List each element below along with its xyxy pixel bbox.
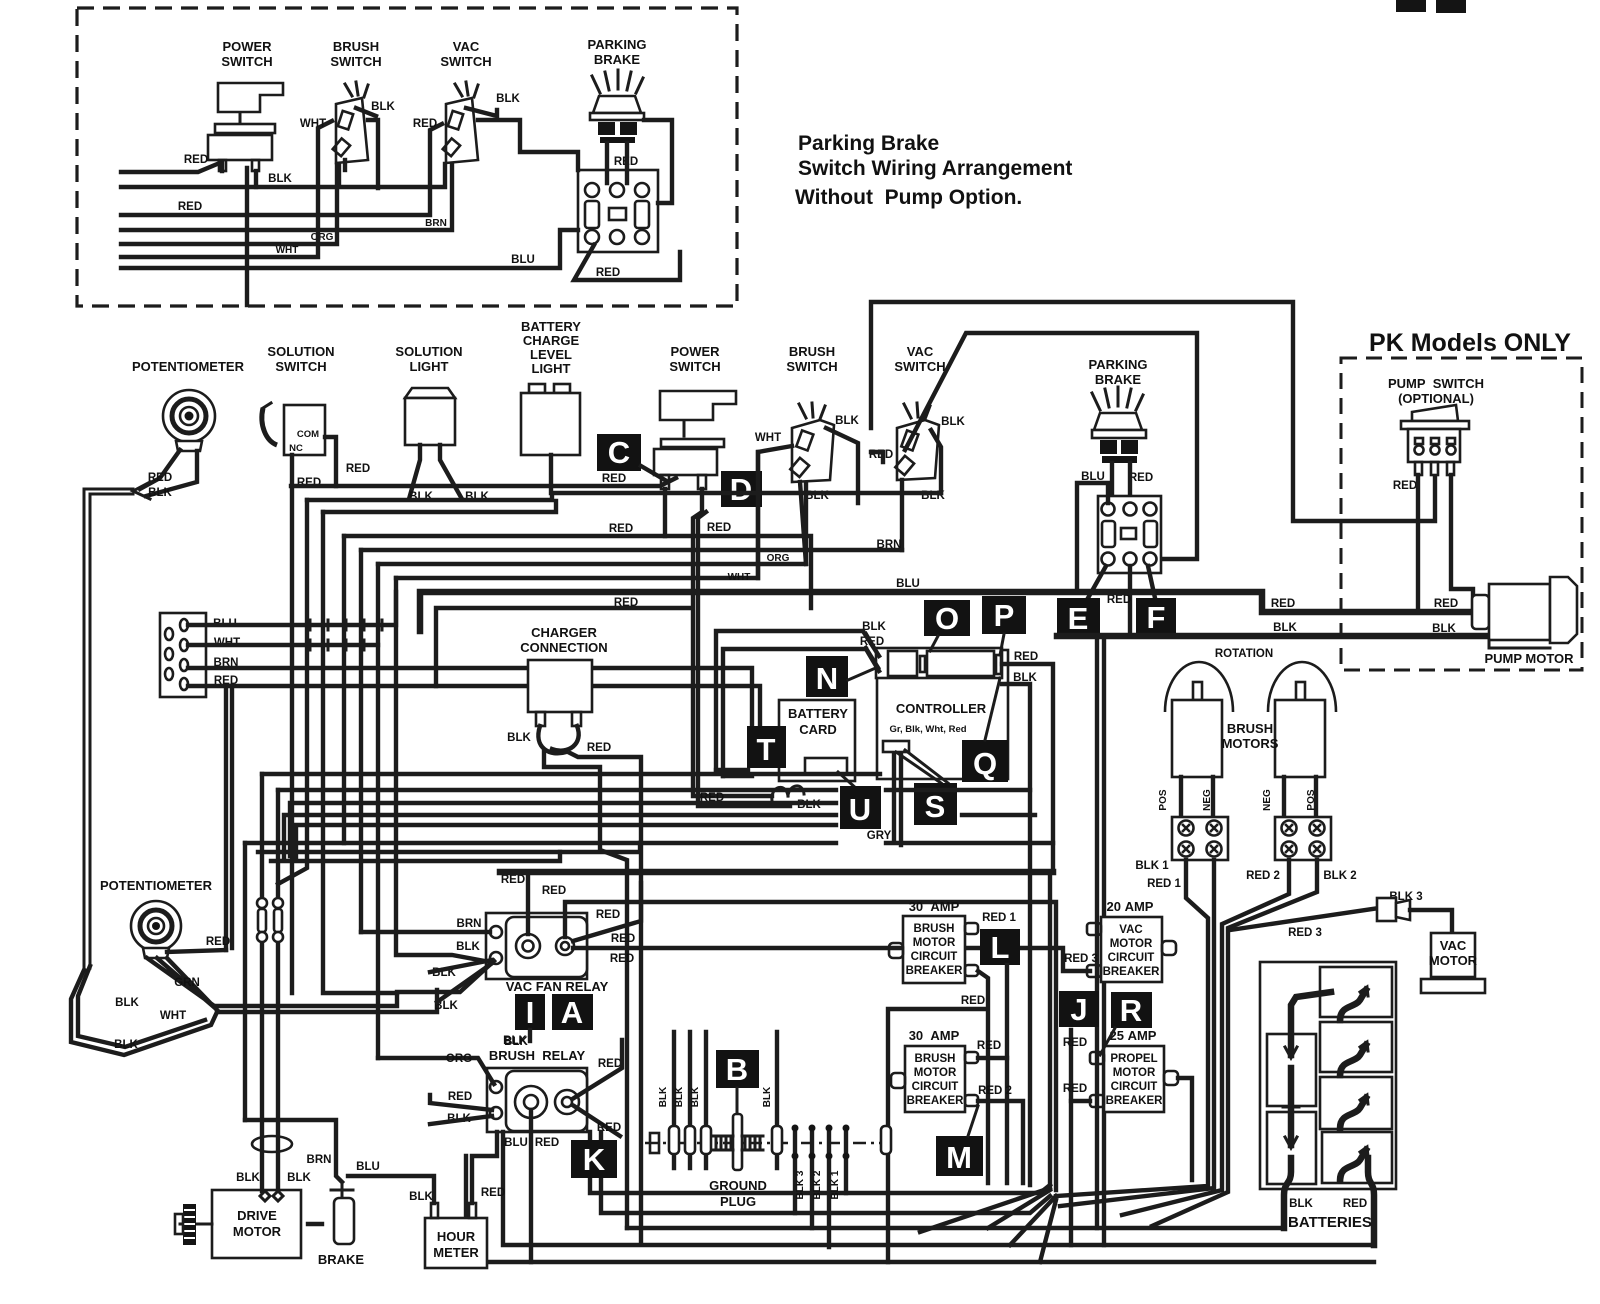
svg-text:BLK: BLK bbox=[114, 1039, 138, 1051]
svg-text:MOTOR: MOTOR bbox=[1113, 1067, 1156, 1079]
vac fan relay K1 coil terminal 1 bbox=[490, 926, 502, 938]
svg-text:BLK 2: BLK 2 bbox=[812, 1170, 823, 1199]
batteries outer box bbox=[1260, 962, 1396, 1189]
wire pot R1 leads to arrow bbox=[140, 450, 197, 496]
parking brake lamp PL1 contact blocks bbox=[598, 122, 615, 135]
svg-text:VAC: VAC bbox=[1119, 924, 1142, 936]
vac switch S3 body bbox=[446, 98, 478, 163]
wire staircase v323 down bbox=[323, 512, 397, 993]
svg-text:LEVEL: LEVEL bbox=[530, 347, 572, 362]
wire K2 bottom drops bbox=[590, 1132, 846, 1213]
battery card inner connector bbox=[805, 758, 847, 774]
battery jumper s4 bbox=[1340, 1150, 1366, 1180]
potentiometer R2 base bbox=[143, 948, 169, 958]
svg-text:SWITCH: SWITCH bbox=[221, 54, 272, 69]
wire BLU brake to hour meter bbox=[348, 1176, 434, 1203]
brush relay K2 terminal 1 bbox=[490, 1081, 502, 1093]
brush motor M2 body bbox=[1172, 700, 1222, 777]
marker A bbox=[552, 994, 593, 1030]
controller connector strip cell 1 bbox=[888, 651, 917, 676]
marker U bbox=[840, 786, 881, 829]
ground plug GP1 right hatch bbox=[742, 1136, 763, 1150]
svg-text:BLK 3: BLK 3 bbox=[795, 1170, 806, 1199]
wire battery card to U leader bbox=[838, 772, 858, 790]
svg-text:R: R bbox=[1120, 993, 1142, 1028]
wire staircase v396 down WHT bbox=[396, 578, 490, 962]
svg-text:O: O bbox=[935, 601, 959, 636]
wire WHT line y578 bbox=[396, 452, 758, 578]
svg-text:VAC: VAC bbox=[907, 344, 934, 359]
wire L7 BLU bbox=[121, 230, 578, 268]
vac fan relay K1 inner bbox=[506, 917, 587, 977]
svg-text:BLK: BLK bbox=[941, 416, 965, 428]
svg-text:PROPEL: PROPEL bbox=[1110, 1053, 1157, 1065]
svg-text:PUMP SWITCH: PUMP SWITCH bbox=[1388, 376, 1484, 391]
wire TB2 drop 2 bbox=[1152, 860, 1317, 1226]
contactor CR1 coil left bbox=[585, 201, 599, 228]
wire brush motor M2 leads bbox=[1181, 777, 1213, 817]
wire L area down bbox=[1005, 965, 1009, 1183]
svg-text:VAC FAN RELAY: VAC FAN RELAY bbox=[506, 979, 609, 994]
svg-text:RED 1: RED 1 bbox=[982, 912, 1016, 924]
wire charger loop RED bbox=[552, 726, 579, 751]
svg-text:D: D bbox=[730, 472, 752, 507]
wire BLK diag to K2 t2 bbox=[430, 1116, 492, 1124]
svg-text:BLK: BLK bbox=[456, 941, 480, 953]
svg-text:ORG: ORG bbox=[767, 553, 790, 564]
SECTION: title bbox=[795, 132, 1072, 209]
wire brush sw bottom to BLK line bbox=[343, 160, 347, 170]
wire BLK diagonals to relay K1 t2 bbox=[430, 960, 492, 1002]
battery charge light DS2 caps bbox=[529, 384, 545, 393]
wire RED bus heavy y872 bbox=[500, 869, 1053, 876]
controller connector strip outer bbox=[876, 648, 1002, 678]
wire L5 ORG bbox=[121, 165, 337, 244]
vac switch S7 rays bbox=[904, 403, 930, 419]
brush switch S6 body bbox=[792, 420, 834, 482]
marker P bbox=[982, 596, 1026, 634]
wire fan diag 3 bbox=[920, 1188, 1050, 1232]
svg-text:RED: RED bbox=[609, 523, 633, 535]
contactor CR2 bottom terminals bbox=[1102, 553, 1115, 566]
svg-text:BRUSH: BRUSH bbox=[914, 923, 955, 935]
svg-text:BREAKER: BREAKER bbox=[1106, 1095, 1164, 1107]
battery jumper s1 bbox=[1340, 990, 1366, 1020]
wire ORG long to brush relay bbox=[378, 1058, 494, 1084]
wire staircase v307 down bbox=[278, 500, 307, 884]
solution light DS1 terminals bbox=[409, 445, 462, 499]
contactor CR1 middle contact bbox=[609, 208, 626, 220]
vac fan relay K1 coil terminal 2 bbox=[490, 952, 502, 964]
svg-text:BLK 1: BLK 1 bbox=[830, 1170, 841, 1199]
contactor CR1 box bbox=[578, 170, 658, 252]
battery B6 bbox=[1322, 1132, 1392, 1183]
svg-text:NC: NC bbox=[289, 443, 303, 454]
stub connector 3 bbox=[827, 1130, 831, 1247]
wire ring1 down long right bbox=[531, 1110, 1374, 1262]
svg-text:SWITCH: SWITCH bbox=[786, 359, 837, 374]
svg-text:POS: POS bbox=[1158, 789, 1169, 810]
wire CB2 top tab bbox=[978, 1056, 1007, 1060]
wire strip right RED bbox=[1002, 664, 1053, 872]
brush relay K2 inner bbox=[506, 1071, 587, 1131]
wire RED diag to K2 t2 bbox=[430, 1095, 492, 1110]
wire brush sw bottom drop ORG bbox=[800, 482, 806, 564]
svg-text:MOTOR: MOTOR bbox=[914, 1067, 957, 1079]
wire N pointer bbox=[848, 667, 878, 680]
circuit breaker CB2 right tabs bbox=[965, 1052, 978, 1063]
solution switch S4 bottom terminal bbox=[290, 455, 294, 993]
svg-text:RED: RED bbox=[501, 874, 525, 886]
battery jumper s2 bbox=[1340, 1045, 1366, 1075]
svg-text:C: C bbox=[608, 435, 630, 470]
svg-text:(OPTIONAL): (OPTIONAL) bbox=[1398, 391, 1474, 406]
wire inner corner diagonal to contactor bbox=[905, 333, 1197, 559]
svg-text:BLK: BLK bbox=[115, 997, 139, 1009]
wire long vertical from power switch bbox=[245, 168, 249, 305]
svg-text:BATTERY: BATTERY bbox=[521, 319, 581, 334]
power switch S5 body bbox=[654, 449, 717, 475]
power switch S1 mounting bar bbox=[215, 124, 275, 133]
wire R leader bbox=[1100, 1028, 1115, 1055]
pump motor M1 body bbox=[1489, 584, 1550, 640]
bundle line y815 bbox=[284, 815, 836, 858]
svg-text:Q: Q bbox=[973, 746, 997, 781]
svg-text:RED: RED bbox=[611, 933, 635, 945]
svg-text:RED 1: RED 1 bbox=[1147, 878, 1181, 890]
wire BRN line y550 bbox=[361, 548, 902, 552]
svg-text:Without Pump Option.: Without Pump Option. bbox=[795, 186, 1022, 209]
wire CB4 right tab down bbox=[1178, 1078, 1192, 1180]
potentiometer R1 base bbox=[176, 441, 202, 451]
contactor CR2 coil left bbox=[1102, 521, 1115, 547]
pump switch S8 bar bbox=[1401, 421, 1469, 429]
svg-text:MOTORS: MOTORS bbox=[1222, 736, 1279, 751]
svg-text:CIRCUIT: CIRCUIT bbox=[912, 1081, 959, 1093]
solution light DS1 body bbox=[405, 398, 455, 445]
brush motor M2 stem bbox=[1193, 682, 1202, 700]
brush switch S2 rays bbox=[345, 82, 368, 97]
wire L4 BRN bbox=[121, 165, 452, 230]
svg-text:CONTROLLER: CONTROLLER bbox=[896, 701, 987, 716]
brush relay K2 ring 1 bbox=[515, 1086, 547, 1118]
wire L2 BLK bbox=[121, 164, 445, 187]
wire brush sw to BLK label bbox=[356, 108, 376, 116]
drive motor M5 gear bbox=[183, 1204, 196, 1245]
power switch S1 body bbox=[208, 135, 272, 160]
svg-text:RED: RED bbox=[1014, 651, 1038, 663]
svg-text:SOLUTION: SOLUTION bbox=[267, 344, 334, 359]
svg-text:POWER: POWER bbox=[222, 39, 272, 54]
wire diag from battery card RED to ring2 bbox=[573, 883, 641, 941]
svg-text:BATTERY: BATTERY bbox=[788, 706, 848, 721]
wire controller left pin stub bbox=[866, 633, 879, 668]
potentiometer R2 rings bbox=[131, 901, 181, 951]
svg-text:B: B bbox=[726, 1052, 748, 1087]
svg-text:LIGHT: LIGHT bbox=[410, 359, 449, 374]
contactor CR2 middle contact bbox=[1121, 528, 1136, 539]
brush relay K2 terminal 2 bbox=[490, 1107, 502, 1119]
svg-text:20 AMP: 20 AMP bbox=[1107, 899, 1154, 914]
parking brake lamp PL1 base bar bbox=[590, 113, 644, 120]
ground plug interface dash line bbox=[645, 1142, 885, 1145]
svg-text:30 AMP: 30 AMP bbox=[909, 899, 960, 914]
wire RED line y608 bbox=[436, 608, 690, 686]
harness wire 1 with connector bbox=[672, 1032, 676, 1168]
svg-text:RED: RED bbox=[1393, 480, 1417, 492]
svg-text:SOLUTION: SOLUTION bbox=[395, 344, 462, 359]
brush switch S6 contact 2 bbox=[790, 458, 809, 477]
svg-text:BRUSH: BRUSH bbox=[915, 1053, 956, 1065]
wire relay ring2 to vac breaker RED3 bbox=[573, 948, 1090, 971]
vac switch S3 contact 1 bbox=[448, 111, 463, 130]
svg-text:RED: RED bbox=[602, 473, 626, 485]
parking brake lamp PL2 base bbox=[1092, 430, 1146, 438]
wire controller left BLK RED to battery card pair bbox=[716, 631, 879, 776]
wire vac sw to BLK label bbox=[466, 108, 497, 116]
svg-text:BLU: BLU bbox=[896, 578, 920, 590]
battery jumper top bbox=[1291, 992, 1331, 1055]
svg-text:BRUSH: BRUSH bbox=[333, 39, 379, 54]
svg-text:CIRCUIT: CIRCUIT bbox=[1111, 1081, 1158, 1093]
terminal block TB2 bbox=[1275, 817, 1331, 860]
svg-text:ORG: ORG bbox=[446, 1053, 472, 1065]
svg-text:N: N bbox=[816, 661, 838, 696]
svg-text:BRN: BRN bbox=[307, 1154, 332, 1166]
pump switch S8 pins bbox=[1415, 462, 1422, 475]
svg-text:RED: RED bbox=[614, 597, 638, 609]
bundle line y852 bbox=[258, 843, 640, 852]
harness capsule right bbox=[881, 1126, 891, 1154]
brush switch S2 contact 1 bbox=[338, 111, 353, 130]
harness wire 4 right of plug bbox=[775, 1032, 779, 1168]
brake B1 bolt bbox=[331, 1182, 353, 1198]
controller connector strip cell 2 bbox=[927, 651, 994, 676]
bundle line y803 bbox=[290, 803, 836, 856]
vac fan relay K1 ring 2 bbox=[556, 937, 574, 955]
vac switch S3 contact 2 bbox=[443, 138, 460, 156]
power switch S5 bar bbox=[661, 439, 724, 447]
svg-text:RED: RED bbox=[542, 885, 566, 897]
interface left cap bbox=[650, 1133, 659, 1153]
svg-text:RED: RED bbox=[1434, 598, 1458, 610]
svg-text:RED: RED bbox=[481, 1187, 505, 1199]
marker M bbox=[936, 1136, 983, 1176]
wire RED pair down to pot2 bbox=[226, 686, 232, 950]
contactor CR1 bottom terminals bbox=[585, 230, 599, 244]
battery charge light DS2 body bbox=[521, 393, 580, 455]
wire RED ring2 riser bbox=[565, 902, 1056, 1190]
pump motor M1 end cap bbox=[1550, 577, 1577, 643]
circuit breaker CB4 left tabs bbox=[1090, 1052, 1104, 1064]
marker Q bbox=[962, 740, 1008, 782]
svg-text:25 AMP: 25 AMP bbox=[1110, 1028, 1157, 1043]
inset dashed border bbox=[77, 8, 737, 306]
battery RED lead bbox=[1368, 1158, 1374, 1245]
battery B1 B2 link bbox=[1288, 1068, 1295, 1145]
wire CB2 bottom tab bbox=[978, 1101, 1023, 1183]
svg-text:BATTERIES: BATTERIES bbox=[1288, 1214, 1372, 1231]
brush switch S6 rays bbox=[799, 403, 825, 419]
svg-text:J: J bbox=[1070, 992, 1087, 1027]
wire L1 RED bbox=[121, 162, 222, 172]
harness wire 2 with connector bbox=[688, 1032, 692, 1168]
wire I A drop 1 bbox=[528, 1030, 532, 1041]
svg-text:BLK: BLK bbox=[1289, 1198, 1313, 1210]
svg-text:BLK: BLK bbox=[1273, 622, 1297, 634]
contactor CR2 top terminals bbox=[1102, 503, 1115, 516]
hour meter HM1 box bbox=[425, 1218, 487, 1268]
circuit breaker CB2 left tab bbox=[891, 1073, 905, 1088]
wire power switch right terminal drop long bbox=[693, 489, 790, 806]
wire TB2 drop 1 bbox=[1122, 860, 1289, 1215]
wire BLK step y512 bbox=[323, 501, 556, 512]
svg-text:RED: RED bbox=[346, 463, 370, 475]
drive motor M5 box bbox=[212, 1190, 301, 1258]
wire pump pin3 down bbox=[1451, 475, 1473, 596]
svg-text:RED 2: RED 2 bbox=[1246, 870, 1280, 882]
bundle line y825 bbox=[296, 825, 836, 858]
wire GRY drop from controller bar bbox=[894, 752, 901, 845]
wire P pointer bbox=[1000, 634, 1004, 655]
brush switch S2 contact 2 bbox=[333, 138, 350, 156]
battery B5 bbox=[1320, 1077, 1392, 1129]
marker B bbox=[716, 1050, 759, 1088]
svg-text:POTENTIOMETER: POTENTIOMETER bbox=[100, 878, 213, 893]
svg-text:L: L bbox=[991, 930, 1010, 965]
svg-text:RED: RED bbox=[178, 201, 202, 213]
svg-text:GRY: GRY bbox=[867, 830, 892, 842]
wire ring2 to K marker bbox=[574, 1106, 620, 1136]
svg-text:BRN: BRN bbox=[877, 539, 902, 551]
svg-text:MOTOR: MOTOR bbox=[1429, 953, 1478, 968]
svg-text:RED 3: RED 3 bbox=[1288, 927, 1322, 939]
wire vac switch top loop bbox=[478, 120, 578, 170]
svg-text:BLK: BLK bbox=[268, 173, 292, 185]
contactor CR1 coil right bbox=[635, 201, 649, 228]
svg-text:BLK: BLK bbox=[507, 732, 531, 744]
svg-text:NEG: NEG bbox=[1262, 789, 1273, 811]
power switch S1 key knob bbox=[218, 83, 283, 112]
svg-text:MOTOR: MOTOR bbox=[233, 1224, 282, 1239]
vac switch S7 body bbox=[897, 420, 939, 480]
wire to brake bbox=[245, 1120, 342, 1182]
bundle line y843 bbox=[245, 841, 836, 845]
battery B3 bbox=[1320, 967, 1392, 1017]
svg-text:CIRCUIT: CIRCUIT bbox=[1108, 952, 1155, 964]
wire BLK heavy line y636 to pump motor bbox=[1057, 633, 1487, 640]
drive motor M5 terminals bbox=[260, 1191, 283, 1201]
battery card A1 box bbox=[779, 700, 855, 781]
svg-text:RED: RED bbox=[961, 995, 985, 1007]
circuit breaker CB3 right tab bbox=[1162, 941, 1176, 955]
power switch S5 key knob bbox=[660, 391, 736, 420]
vac fan relay K1 ring 1 bbox=[516, 934, 540, 958]
svg-text:RED: RED bbox=[1271, 598, 1295, 610]
wire charger RED drop bbox=[570, 753, 641, 1243]
ground plug GP1 bar bbox=[733, 1114, 742, 1170]
svg-text:30 AMP: 30 AMP bbox=[909, 1028, 960, 1043]
battery jumper s3 bbox=[1340, 1098, 1366, 1128]
brake B1 cylinder bbox=[334, 1198, 354, 1244]
brush switch S2 body bbox=[336, 98, 368, 163]
svg-text:Gr, Blk, Wht, Red: Gr, Blk, Wht, Red bbox=[889, 724, 966, 735]
wire fan diag 2 bbox=[1010, 1196, 1056, 1245]
svg-text:BLK: BLK bbox=[835, 415, 859, 427]
circuit breaker CB3 left tabs bbox=[1087, 923, 1101, 935]
wire connector to vac motor bbox=[1410, 910, 1452, 933]
svg-text:BRN: BRN bbox=[457, 918, 482, 930]
potentiometer R1 rings bbox=[163, 390, 215, 442]
wire L6 WHT bbox=[121, 121, 332, 257]
svg-text:PARKING: PARKING bbox=[588, 37, 647, 52]
svg-text:BLU: BLU bbox=[356, 1161, 380, 1173]
wire charger BLK drop bbox=[544, 752, 627, 1228]
bundle line y861 bbox=[271, 852, 560, 861]
wire contactor right side to parking brake bbox=[644, 120, 672, 203]
wire hour meter RED riser bbox=[472, 1132, 497, 1203]
svg-text:SWITCH: SWITCH bbox=[330, 54, 381, 69]
svg-text:PARKING: PARKING bbox=[1089, 357, 1148, 372]
svg-text:RED: RED bbox=[148, 472, 172, 484]
vac switch S7 contact 2 bbox=[895, 456, 914, 475]
svg-text:CHARGER: CHARGER bbox=[531, 625, 597, 640]
charger connector CH1 body bbox=[528, 660, 592, 712]
power switch S5 terminals bbox=[661, 475, 669, 489]
pump motor M1 base bbox=[1489, 640, 1550, 648]
parking brake lamp PL1 dome bbox=[593, 96, 641, 113]
svg-text:I: I bbox=[526, 995, 535, 1030]
svg-text:PUMP MOTOR: PUMP MOTOR bbox=[1484, 651, 1574, 666]
brush motor M3 stem bbox=[1296, 682, 1305, 700]
pump motor M1 plug bbox=[1472, 595, 1489, 629]
brush relay K2 box bbox=[487, 1068, 587, 1132]
svg-text:RED 3: RED 3 bbox=[1064, 953, 1098, 965]
svg-text:RED: RED bbox=[707, 522, 731, 534]
charger connector CH1 terminals bbox=[536, 712, 545, 726]
crossing ticks on J1 lines bbox=[292, 620, 382, 650]
wire left chevron inner bbox=[78, 966, 205, 1047]
wire O pointer bbox=[930, 636, 938, 651]
wire RED from J1 bbox=[188, 686, 760, 726]
wire power switch right terminal down bbox=[254, 171, 258, 187]
svg-text:BLK: BLK bbox=[496, 93, 520, 105]
wire E F verticals down bbox=[1097, 637, 1104, 1245]
circuit breaker CB1 right tabs bbox=[965, 923, 978, 934]
svg-text:K: K bbox=[583, 1142, 606, 1177]
marker S bbox=[914, 783, 957, 825]
wire vac sw bottom drop BRN bbox=[900, 480, 904, 550]
battery charge light DS2 terminal bbox=[549, 455, 553, 493]
wire brush sw top to BLK riser bbox=[826, 428, 858, 503]
circuit breaker CB2 box bbox=[905, 1046, 965, 1112]
wire BLU WHT pair drop to battery card bbox=[716, 770, 752, 776]
marker C bbox=[597, 434, 641, 471]
svg-text:BLK: BLK bbox=[658, 1086, 669, 1107]
svg-text:BLK: BLK bbox=[862, 621, 886, 633]
connector J1 body bbox=[160, 613, 206, 697]
vac motor M4 base bbox=[1421, 979, 1485, 993]
svg-text:BLK: BLK bbox=[674, 1086, 685, 1107]
pump switch S8 body bbox=[1408, 429, 1460, 462]
wire brush motor M3 leads bbox=[1284, 777, 1316, 817]
svg-text:A: A bbox=[561, 995, 583, 1030]
svg-text:POTENTIOMETER: POTENTIOMETER bbox=[132, 359, 245, 374]
wire RED line y536 bbox=[344, 536, 811, 608]
wire fan diag 1 bbox=[988, 1190, 1050, 1228]
svg-text:BLK: BLK bbox=[287, 1172, 311, 1184]
controller U2 box bbox=[877, 650, 1008, 779]
